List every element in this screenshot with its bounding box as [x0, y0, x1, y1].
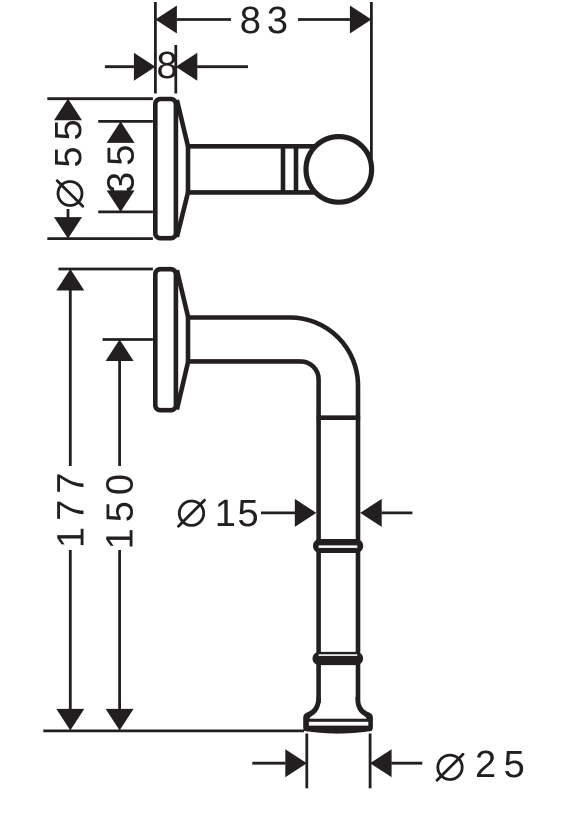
dim Ø25: left arrowhead (points right) [285, 749, 307, 777]
dim 83: right extension line [370, 2, 373, 160]
dim 177: dimension line upper segment [69, 290, 72, 466]
dim 150: label (rotated) [100, 468, 142, 549]
dim 177: down arrowhead [56, 709, 84, 731]
coupling ring 1 [313, 539, 363, 553]
ball knob [306, 137, 372, 203]
dim 35: up arrowhead [107, 121, 135, 142]
dim 8: left extension line shared with 83 above; right extension line [174, 45, 177, 94]
wall plate (top view) [155, 99, 176, 238]
floor baseline [43, 730, 304, 733]
dim 83: right arrowhead [350, 6, 372, 34]
base white stripe [309, 722, 368, 726]
svg-text:150: 150 [100, 468, 142, 549]
svg-text:35: 35 [101, 139, 143, 193]
cone junction line [186, 144, 191, 194]
pipe right edge [356, 418, 361, 703]
dim Ø15: diameter symbol slash [179, 500, 205, 526]
dim Ø25: diameter symbol circle [438, 755, 462, 779]
stem ring line 1 [281, 144, 286, 194]
stem bottom edge [188, 190, 315, 195]
dim Ø15: right arrowhead (points left) [360, 499, 382, 527]
cone upper slant [177, 270, 188, 316]
svg-text:15: 15 [215, 493, 265, 535]
stem ring line 2 [294, 144, 299, 194]
dim 35: bottom extension line [98, 210, 153, 213]
dim Ø55: top extension line [47, 97, 153, 100]
wall plate (bottom view) [155, 269, 176, 410]
dim Ø25: left tail line [252, 762, 285, 765]
dim 177: dimension line lower segment [69, 550, 72, 710]
dim 8: left tail line [105, 65, 134, 68]
dim 83: left extension line [154, 2, 157, 94]
dim Ø25: right arrowhead (points left) [370, 749, 392, 777]
dim Ø15: left arrowhead (points right) [295, 499, 317, 527]
dim Ø55: diameter symbol slash [57, 181, 83, 207]
dim 35: label (rotated) [101, 139, 143, 193]
dim Ø15: diameter symbol circle [179, 501, 203, 525]
svg-text:55: 55 [48, 113, 90, 167]
dim 35: down arrowhead [107, 190, 135, 212]
cone lower slant [177, 362, 188, 409]
dim Ø15: leader line [261, 512, 296, 515]
dim Ø55: line stub below text [67, 209, 70, 219]
dim Ø55: down arrowhead [54, 217, 82, 239]
cone lower slant [177, 192, 188, 237]
svg-text:83: 83 [240, 0, 294, 42]
dim Ø15: right tail line [382, 512, 413, 515]
base bottom curved band [304, 728, 372, 733]
dim 8: left arrowhead (points right) [134, 53, 156, 81]
svg-text:25: 25 [475, 744, 531, 786]
coupling ring 2 [313, 652, 364, 665]
dim 150: down arrowhead [106, 709, 134, 731]
pipe joint line [316, 415, 360, 420]
dim 83: left arrowhead [155, 6, 177, 34]
dim Ø55: diameter symbol circle [58, 182, 82, 206]
arm top edge + elbow outer curve + pipe right start [188, 318, 358, 418]
dim Ø55: bottom extension line [47, 237, 153, 240]
dim 8: right arrowhead (points left) [176, 53, 198, 81]
dim 83: dimension line segments [177, 18, 231, 21]
stem top edge [188, 144, 315, 149]
svg-text:8: 8 [157, 45, 184, 87]
dim Ø55: up arrowhead [54, 99, 82, 121]
base trumpet foot silhouette [303, 697, 373, 731]
dim Ø25: diameter symbol slash [437, 754, 463, 780]
dim Ø25: right tail line [392, 762, 423, 765]
dim 150: up arrowhead [106, 340, 134, 362]
dim 150: dimension line lower segment [118, 550, 121, 710]
dim 35: top extension line [98, 120, 153, 123]
dim 177: up arrowhead [56, 269, 84, 291]
dim 8: right tail line [197, 65, 248, 68]
dim Ø55: label digits (rotated) [48, 113, 90, 167]
arm bottom edge + elbow inner curve + pipe left start [188, 361, 319, 417]
dim 150: top extension line [103, 338, 153, 341]
dim Ø25: right extension line [369, 734, 372, 789]
svg-text:177: 177 [50, 467, 92, 548]
dim Ø25: left extension line [305, 734, 308, 789]
pipe left edge [316, 418, 321, 703]
dim 177: top extension line [58, 268, 152, 271]
dim 150: dimension line upper segment [118, 361, 121, 466]
cone junction line [186, 315, 191, 364]
dim 177: label (rotated) [50, 467, 92, 548]
cone upper slant [177, 100, 188, 146]
